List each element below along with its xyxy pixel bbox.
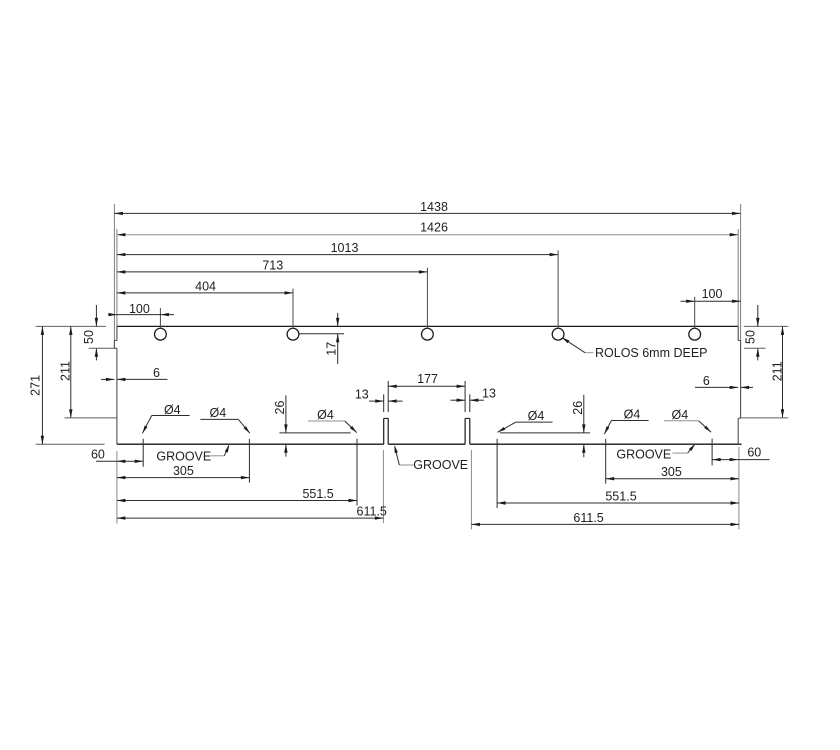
svg-text:6: 6 [153, 366, 160, 380]
groove label 3 leader [672, 452, 687, 454]
svg-text:305: 305 [173, 464, 194, 478]
dimension 713 [117, 271, 428, 273]
305 left tick [248, 439, 250, 483]
dimension 305 right [606, 478, 739, 480]
dimension 6 left line b [117, 378, 168, 380]
dimension 211 left arrows [69, 326, 72, 335]
dimension 1013 [117, 254, 558, 256]
part bottom edge segment 1 [117, 443, 384, 445]
svg-text:50: 50 [82, 330, 96, 344]
dimension 50 right arrows [756, 318, 759, 327]
part right edge seg1 [737, 326, 739, 340]
svg-text:611.5: 611.5 [573, 511, 603, 525]
dimension 1426 line [117, 234, 738, 236]
dimension 60 right arrows [712, 458, 721, 461]
svg-text:100: 100 [702, 287, 723, 301]
dimension 17 lower tail [337, 334, 339, 364]
svg-text:Ø4: Ø4 [624, 407, 641, 421]
svg-text:Ø4: Ø4 [672, 408, 689, 422]
60 left tick [142, 439, 144, 467]
left outer edge / 1438 extension [113, 204, 115, 341]
dimension 6 left line a [101, 378, 114, 380]
dimension 271 arrows [41, 326, 44, 335]
13 right tick b [469, 394, 471, 412]
dimension 100 right [681, 300, 741, 302]
rolo hole circle 5 [689, 328, 701, 340]
dimension 551.5 right [497, 502, 739, 504]
13 left tick b [387, 381, 389, 412]
diameter 4 callout 3 leader [308, 420, 345, 422]
right groove depth line [500, 432, 590, 434]
right edge jog at 211 fold [738, 417, 740, 419]
svg-text:Ø4: Ø4 [164, 403, 181, 417]
extension line circle 2 (404 dim) [292, 289, 294, 329]
svg-text:13: 13 [355, 388, 369, 402]
svg-text:50: 50 [744, 330, 758, 344]
extension line circle 3 (713 dim) [426, 268, 428, 329]
rolo hole circle 3 [422, 328, 434, 340]
rolo hole circle 4 [552, 328, 564, 340]
211 right extension line [741, 417, 789, 419]
dimension 26 left lower tail [285, 444, 287, 456]
211 left extension line [65, 417, 117, 419]
dimension 13 left arrows [375, 399, 384, 402]
part left edge seg1 [116, 326, 118, 340]
part bottom edge segment 3 [470, 443, 742, 445]
part left edge seg3 [116, 348, 118, 444]
dimension 611.5 left [117, 517, 384, 519]
svg-text:Ø4: Ø4 [210, 406, 227, 420]
dimension 13 left line a [369, 400, 384, 402]
dimension 60 right line [712, 459, 769, 461]
left edge lower extension [116, 451, 118, 524]
svg-text:211: 211 [770, 361, 784, 381]
dimension 50 right upper tail [757, 305, 759, 326]
svg-text:551.5: 551.5 [302, 487, 333, 501]
dimension 305 left [117, 477, 250, 479]
left slot right wall [387, 418, 389, 444]
rolo hole circle 1 [155, 328, 167, 340]
dimension 26 right lower tail [583, 444, 585, 457]
right slot left wall [464, 418, 466, 444]
right slot top cap [465, 417, 470, 419]
dimension 211 right arrows [781, 326, 784, 335]
svg-text:GROOVE: GROOVE [413, 458, 468, 472]
611.5 right tick [470, 450, 472, 529]
right edge lower extension [738, 447, 740, 529]
part top edge [117, 325, 738, 327]
50 right extension line [744, 347, 766, 349]
diameter 4 callout 6 leader [664, 420, 699, 422]
svg-text:Ø4: Ø4 [317, 408, 334, 422]
rolos note leader [585, 352, 593, 354]
dimension 177 arrows [388, 385, 397, 388]
dimension 1438 [114, 212, 740, 214]
extension line circle 4 (1013 dim) [557, 250, 559, 328]
svg-text:271: 271 [28, 375, 42, 396]
svg-text:GROOVE: GROOVE [616, 447, 671, 461]
dimension 6 left arrows [106, 378, 115, 381]
left groove depth line [279, 432, 350, 434]
dimension 211 right line [782, 326, 784, 417]
611.5 left tick [382, 450, 384, 523]
dimension 60 left arrows [117, 460, 126, 463]
551.5 left tick [356, 439, 358, 506]
part right edge seg3 [737, 418, 739, 444]
13 left tick a [383, 394, 385, 412]
groove label 1 leader [211, 455, 225, 457]
right edge jog at 340 [738, 340, 740, 342]
dimension 13 right line a [450, 399, 465, 401]
dimension 6 right line a [695, 386, 738, 388]
bottom edge left extension [36, 443, 105, 445]
dimension 6 right line b [741, 386, 753, 388]
dimension 26 right upper tail [583, 395, 585, 433]
svg-text:6: 6 [703, 374, 710, 388]
svg-text:713: 713 [262, 258, 283, 272]
left slot left wall [383, 418, 385, 444]
dimension 100 left [110, 314, 174, 316]
svg-text:404: 404 [195, 279, 216, 293]
dimension 211 left line [70, 326, 72, 418]
dimension 1426 arrows and text [117, 233, 126, 236]
50 left extension line [89, 347, 115, 349]
groove label 2 leader [399, 464, 413, 466]
dimension 17 upper tail [337, 313, 339, 326]
svg-text:GROOVE: GROOVE [156, 449, 211, 463]
diameter 4 callout 4 leader [516, 421, 553, 423]
svg-text:60: 60 [91, 447, 105, 461]
dimension 13 right line b [470, 399, 484, 401]
dimension 404 [117, 292, 293, 294]
extension line circle 5 (100 right dim) [694, 297, 696, 329]
dimension 611.5 right [471, 523, 739, 525]
dimension 50 left lower tail [95, 348, 97, 360]
diameter 4 callout 1 leader [152, 415, 190, 417]
right slot right wall [469, 418, 471, 444]
right outer edge / 1438 extension [740, 204, 742, 341]
left slot top cap [384, 417, 389, 419]
60 right tick [711, 439, 713, 466]
svg-text:13: 13 [482, 387, 496, 401]
dimension 26 left upper tail [285, 395, 287, 433]
svg-text:ROLOS 6mm DEEP: ROLOS 6mm DEEP [595, 346, 708, 360]
svg-text:177: 177 [417, 372, 438, 386]
svg-text:1013: 1013 [331, 241, 359, 255]
svg-text:26: 26 [273, 401, 287, 415]
part left edge seg2 [113, 341, 115, 349]
part right edge seg2 [740, 341, 742, 419]
svg-text:26: 26 [571, 401, 585, 415]
dimension 551.5 left [117, 500, 357, 502]
svg-text:611.5: 611.5 [357, 505, 387, 519]
dimension 13 right arrows [457, 399, 466, 402]
dimension 6 right arrows [730, 386, 739, 389]
diameter 4 callout 2 leader [200, 418, 238, 420]
dimension 60 left line [96, 460, 143, 462]
dimension 26 left arrows [284, 424, 287, 433]
top edge left extension line [36, 325, 106, 327]
dimension 50 left upper tail [95, 305, 97, 326]
line through circle 2 center [299, 333, 344, 335]
svg-text:551.5: 551.5 [605, 490, 636, 504]
left inner 1426 extension [116, 229, 118, 326]
dimension 50 left arrows [95, 318, 98, 327]
top edge right extension line [744, 325, 788, 327]
dimension 13 left line b [388, 400, 402, 402]
svg-text:1426: 1426 [420, 221, 448, 235]
part bottom edge segment 2 [388, 443, 465, 445]
svg-text:Ø4: Ø4 [528, 409, 545, 423]
svg-text:17: 17 [325, 342, 339, 356]
svg-text:60: 60 [747, 446, 761, 460]
svg-text:100: 100 [129, 302, 150, 316]
305 right tick [605, 439, 607, 484]
dimension 26 right arrows [582, 424, 585, 433]
551.5 right tick [496, 439, 498, 508]
rolo hole circle 2 [287, 328, 299, 340]
dimension 271 line [41, 326, 43, 444]
13 right tick a [464, 381, 466, 412]
dimension 177 line [388, 385, 465, 387]
diameter 4 callout 5 leader [611, 420, 648, 422]
svg-text:211: 211 [59, 361, 73, 381]
dimension 17 arrows [336, 318, 339, 327]
extension line circle 1 (100 dim) [159, 308, 161, 329]
right inner 1426 extension [737, 229, 739, 326]
left edge jog at 340 [114, 340, 117, 342]
left edge jog at 50 fold [114, 347, 117, 349]
svg-text:305: 305 [661, 465, 682, 479]
dimension 50 right lower tail [757, 348, 759, 360]
svg-text:1438: 1438 [420, 200, 448, 214]
